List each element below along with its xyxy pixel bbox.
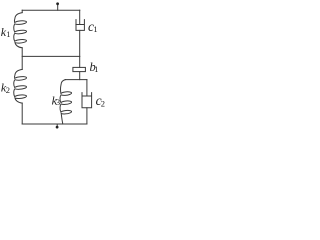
svg-text:1: 1 [93,24,97,34]
svg-text:1: 1 [6,29,10,39]
svg-text:2: 2 [6,85,10,95]
svg-text:3: 3 [56,97,60,107]
svg-text:2: 2 [101,98,105,108]
svg-text:1: 1 [94,64,98,74]
